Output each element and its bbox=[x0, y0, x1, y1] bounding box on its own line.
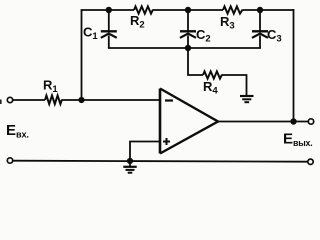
wire middle rail C1 to C3 bottoms bbox=[108, 47, 261, 49]
capacitor C3 bbox=[252, 10, 268, 48]
node A junction dot bbox=[78, 97, 84, 103]
node C2 top junction dot bbox=[185, 7, 191, 13]
resistor R1 bbox=[45, 96, 62, 105]
node R4 junction dot bbox=[185, 45, 191, 51]
ground junction dot on bottom rail bbox=[127, 158, 133, 164]
node C3 top junction dot bbox=[257, 7, 263, 13]
bottom right terminal bbox=[308, 159, 313, 164]
wire top rail left segment bbox=[81, 9, 134, 11]
bottom left terminal bbox=[7, 158, 12, 163]
wire junction down and across to R4 bbox=[188, 48, 203, 75]
wire input terminal to R1 bbox=[13, 99, 45, 101]
op-amp minus symbol bbox=[165, 99, 173, 101]
node C1 top junction dot bbox=[106, 7, 112, 13]
resistor R3 bbox=[223, 6, 243, 13]
op-amp plus symbol bbox=[163, 138, 170, 145]
ground symbol at R4 bbox=[240, 96, 254, 102]
bottom rail wire bbox=[13, 161, 308, 162]
wire top rail middle segment bbox=[153, 9, 223, 11]
wire R4 to ground bbox=[222, 75, 247, 95]
resistor R2 bbox=[134, 6, 153, 13]
wire op-amp output bbox=[218, 121, 308, 123]
capacitor C1 bbox=[101, 10, 117, 48]
resistor R4 bbox=[203, 71, 222, 78]
wire R1 to op-amp minus input bbox=[62, 99, 160, 101]
capacitor C2 bbox=[180, 10, 196, 48]
wire node A up to top rail bbox=[81, 10, 83, 100]
input terminal Evx bbox=[7, 97, 12, 102]
wire op-amp plus input bbox=[130, 142, 160, 162]
output terminal Evyh bbox=[308, 119, 313, 124]
scan speck left edge lower bbox=[0, 100, 2, 105]
ground symbol at bottom rail bbox=[123, 161, 136, 173]
output junction dot bbox=[290, 118, 296, 124]
wire top rail right segment bbox=[243, 9, 295, 11]
op-amp U1 bbox=[160, 89, 218, 154]
wire feedback from top rail to output bbox=[293, 9, 295, 121]
